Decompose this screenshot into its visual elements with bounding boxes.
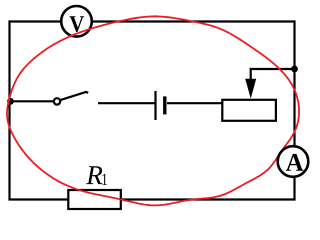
wire: junction to switch pivot bbox=[11, 100, 54, 102]
resistor R1 label bbox=[86, 166, 102, 184]
switch S1 pivot circle bbox=[54, 98, 60, 104]
rheostat R2 body bbox=[222, 100, 276, 121]
resistor R1 body bbox=[68, 190, 121, 209]
red highlight ellipse bbox=[7, 16, 299, 205]
wire: switch to battery bbox=[98, 102, 155, 104]
ammeter U-A circle bbox=[278, 146, 309, 177]
voltmeter label V bbox=[70, 16, 85, 32]
node: junction dot on right wire (rheostat tap) bbox=[291, 66, 298, 73]
wire: tap from right wire to wiper bbox=[251, 69, 295, 80]
wire: battery to rheostat bbox=[167, 102, 222, 104]
battery cell: short negative plate bbox=[163, 96, 166, 114]
switch S1 blade (open) bbox=[60, 92, 88, 100]
ammeter label A bbox=[286, 154, 304, 171]
wire: outer loop left/bottom (top-left corner, left side, bottom side, lower right side) bbox=[10, 22, 295, 200]
battery cell: long positive plate bbox=[154, 91, 156, 120]
node: junction dot on left wire bbox=[7, 98, 14, 105]
rheostat wiper arrow bbox=[245, 79, 256, 99]
wire: top side right of voltmeter and right side down to ammeter bbox=[92, 22, 295, 147]
voltmeter U-V circle bbox=[61, 6, 92, 37]
